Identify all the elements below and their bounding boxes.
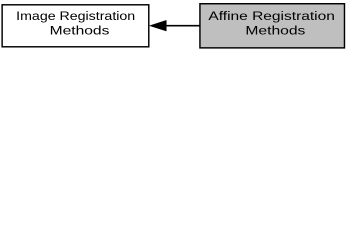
node box: Image Registration Methods: [2, 5, 149, 47]
arrowhead pointing left into base-class box: [150, 20, 167, 31]
svg-text:Methods: Methods: [50, 23, 110, 37]
svg-text:Image Registration: Image Registration: [16, 9, 135, 23]
node box: Affine Registration Methods (current, grey): [200, 4, 345, 48]
svg-text:Methods: Methods: [245, 23, 305, 37]
svg-text:Affine Registration: Affine Registration: [208, 9, 335, 23]
wire: inheritance edge shaft: [166, 25, 200, 27]
